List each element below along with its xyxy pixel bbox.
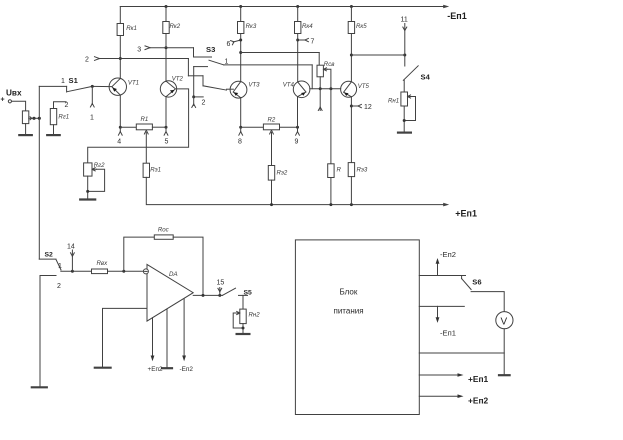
svg-text:S2: S2 [45, 252, 54, 259]
svg-text:6: 6 [227, 41, 231, 48]
inverting input circle [143, 269, 148, 274]
svg-text:15: 15 [217, 280, 225, 287]
transistor VT2 [160, 81, 176, 97]
svg-text:Rсв: Rсв [324, 61, 335, 68]
svg-text:1: 1 [58, 263, 62, 270]
wire Rk4 top [297, 7, 299, 22]
wire input pot bottom [25, 124, 27, 135]
wire top supply rail [120, 6, 444, 8]
wire input bus vertical [38, 86, 40, 259]
node S3 lower contact [192, 95, 195, 98]
resistor Rk5 [348, 22, 354, 34]
svg-text:1: 1 [61, 78, 65, 85]
wire to VT3 base [227, 88, 234, 90]
resistor Re2 [268, 166, 274, 181]
op-amp power pin -Ep2 [183, 299, 185, 357]
wire Rk5 node to S4 [351, 54, 404, 56]
svg-text:+Eп1: +Eп1 [468, 374, 489, 384]
wire R top [330, 89, 332, 164]
wire Rk1 bottom to VT1 collector [119, 36, 121, 79]
node 9 junction [296, 126, 299, 129]
resistor Rk1 [117, 24, 123, 36]
ground Rg2 [80, 198, 95, 200]
node 5 junction [165, 126, 168, 129]
wire box pin1 [419, 275, 465, 277]
svg-text:питания: питания [334, 307, 364, 316]
ground non-inverting [95, 367, 111, 369]
svg-text:14: 14 [67, 244, 75, 251]
node 6 junction [239, 39, 242, 42]
svg-text:1: 1 [225, 59, 229, 66]
resistor Re3 [348, 163, 354, 177]
svg-text:2: 2 [57, 283, 61, 290]
svg-text:Rк2: Rк2 [170, 23, 181, 30]
op-amp power pin middle ground [166, 309, 168, 368]
node 2 junction [119, 57, 122, 60]
switch S1 blade [67, 86, 92, 91]
svg-text:3: 3 [137, 47, 141, 54]
svg-text:Блок: Блок [340, 287, 358, 296]
transistor VT4 [293, 81, 310, 98]
svg-text:7: 7 [311, 39, 315, 46]
switch S4 blade [403, 66, 418, 81]
wire S3 pole2 feed [187, 59, 189, 76]
svg-text:Rк5: Rк5 [356, 23, 367, 30]
wire non-inverting input [103, 308, 148, 366]
Rg2 wiper loop [88, 169, 105, 191]
node 15 junction [218, 294, 221, 297]
potentiometer R2 [263, 124, 279, 130]
wire VT3 emitter down [240, 98, 242, 128]
wire VT1 base [92, 85, 112, 87]
node junction Rk4 top [296, 5, 299, 8]
node 7 junction [296, 39, 299, 42]
wire S4 upper [404, 55, 406, 66]
S1 contact tick [66, 86, 68, 92]
node 12 junction [350, 105, 353, 108]
svg-text:+: + [1, 97, 5, 104]
svg-text:V: V [501, 316, 508, 327]
potentiometer R1 [136, 124, 152, 130]
svg-text:Rос: Rос [158, 227, 169, 234]
svg-text:S5: S5 [244, 290, 253, 297]
wire Rk5 bottom to VT5 collector [350, 34, 352, 82]
switch S5 blade [222, 288, 235, 295]
wire Rn1 bottom [403, 106, 405, 132]
wire -Ep1 arrow [437, 306, 439, 319]
wire R1 to node5 [152, 126, 166, 128]
arrow test point 3 [145, 46, 150, 50]
wire S3 throw1 to VT4 base [224, 64, 312, 66]
wire Rg1 bottom [53, 125, 55, 135]
test point 7 tick [298, 39, 306, 41]
node 14 junction [71, 270, 74, 273]
node junction Rk5 top [350, 5, 353, 8]
wire Rk3 node to Rsv top [241, 52, 320, 54]
svg-text:VT4: VT4 [283, 82, 295, 89]
Rn1 wiper loop [404, 97, 415, 121]
resistor Rsv [317, 65, 323, 77]
wire R2 to node9 [280, 126, 298, 128]
svg-text:-Eп2: -Eп2 [180, 366, 194, 373]
Rsv wiper arrow [323, 68, 327, 71]
node output Roc junction [202, 294, 205, 297]
R2 wiper [271, 133, 273, 166]
switch S3 blade 2 [203, 86, 227, 90]
wire Rk1 top [119, 7, 121, 24]
Rn1 wiper arrow [408, 95, 412, 98]
svg-text:-Eп1: -Eп1 [447, 11, 466, 21]
svg-text:+Eп2: +Eп2 [468, 396, 489, 406]
svg-text:Rн1: Rн1 [388, 98, 399, 105]
S5 contact tick [239, 294, 248, 296]
wire Rk2 top [165, 7, 167, 22]
Rn2 wiper arrow [236, 311, 240, 314]
test point 8 [240, 127, 242, 131]
switch S2 pivot wire [39, 258, 56, 260]
resistor Rk3 [238, 22, 244, 34]
wire box pin +Ep1 [419, 374, 459, 376]
wire Rk3 bottom to VT3 collector [240, 34, 242, 82]
wire R bottom [330, 178, 332, 205]
wire S6 to voltmeter [471, 292, 504, 312]
wire Rn2 bottom [242, 324, 244, 333]
node junction Rk3 top [239, 5, 242, 8]
test point 1 stub [91, 86, 93, 104]
S2 contact 2 stub [40, 276, 56, 387]
node junction Rk2 top [165, 5, 168, 8]
svg-text:Rэ2: Rэ2 [277, 170, 288, 177]
wire node8 to R2 [241, 126, 264, 128]
svg-text:Rк3: Rк3 [246, 23, 257, 30]
svg-text:+Eп2: +Eп2 [148, 366, 163, 373]
resistor Rn2 [240, 309, 246, 324]
svg-text:12: 12 [364, 104, 372, 111]
node 4 junction [119, 126, 122, 129]
Rg2 wiper arrow [92, 168, 97, 171]
transistor VT1 [109, 78, 126, 95]
wire op-amp input line [61, 270, 92, 272]
wire box pin2 [419, 305, 464, 307]
wire Rg1 top contact2 [54, 102, 67, 109]
svg-text:Rвх: Rвх [97, 260, 109, 267]
S3 throw2 contact [194, 66, 208, 68]
svg-text:Uвх: Uвх [6, 89, 22, 98]
node Rn2 bottom junction [242, 327, 245, 330]
resistor Roc [154, 235, 173, 239]
svg-text:-Eп2: -Eп2 [440, 250, 456, 259]
node Rk5-S4 junction [350, 54, 353, 57]
wire Rg2 bottom [87, 176, 89, 199]
svg-text:Rн2: Rн2 [249, 311, 261, 318]
test point 9 [297, 127, 299, 131]
wire VT2 emitter down [165, 97, 167, 128]
node S1 junction [91, 85, 94, 88]
node Roc junction [122, 270, 125, 273]
power supply box [295, 240, 419, 415]
wire Rk3 top [240, 7, 242, 22]
wire node2 horizontal [99, 58, 188, 60]
wire node4 to R1 [120, 126, 136, 128]
wire op-amp output [193, 294, 222, 296]
svg-text:Rг1: Rг1 [58, 114, 69, 121]
node Re3 rail junction [350, 203, 353, 206]
wire Rk4 bottom to VT4 collector [297, 34, 299, 83]
potentiometer input [22, 111, 28, 124]
R1 wiper [145, 133, 147, 164]
svg-text:R: R [337, 167, 342, 174]
node Rsv bottom junction [319, 87, 322, 90]
ground Rg1 [47, 134, 60, 136]
resistor Rk4 [295, 22, 301, 34]
wire input to pot [12, 101, 26, 111]
Rn2 wiper loop [233, 313, 243, 328]
wire Re3 bottom [350, 177, 352, 205]
test point 15 stub [219, 288, 221, 296]
wire Rk2 bottom to VT2 collector [165, 34, 167, 82]
wire Rvx to op-amp [108, 270, 144, 272]
svg-text:VT5: VT5 [358, 83, 370, 90]
wire S1 feed [39, 85, 66, 87]
svg-text:VT1: VT1 [128, 80, 139, 87]
transistor VT5 [341, 81, 357, 97]
wire Roc loop left [124, 237, 155, 271]
voltmeter V [496, 312, 513, 329]
wire Roc loop right [173, 237, 203, 295]
resistor Rk2 [163, 22, 169, 34]
input pot wiper [29, 117, 34, 120]
test point 4 [119, 127, 121, 131]
ground voltmeter bar [499, 374, 510, 376]
svg-text:2: 2 [202, 100, 206, 107]
node Rk3-Rsv junction [239, 51, 242, 54]
node R rail junction [329, 203, 332, 206]
resistor Re1 [143, 163, 149, 177]
wire Re1 bottom to rail [146, 177, 444, 204]
op-amp DA triangle [147, 264, 193, 321]
test point 12 tick [351, 105, 358, 107]
node wiper junction [32, 117, 35, 120]
node R top junction [329, 87, 332, 90]
wire Rsv bottom [319, 77, 321, 89]
wire VT4-VT5 base bus [310, 88, 341, 90]
switch S3 blade 1 [209, 60, 224, 65]
wire S5 to Rn2 [242, 295, 244, 309]
wire S4 to Rn1 [403, 80, 405, 92]
resistor Rg2 [84, 163, 92, 176]
wire node3 horizontal [150, 47, 194, 49]
svg-text:R1: R1 [141, 116, 149, 123]
wire -Ep2 arrow [437, 262, 439, 276]
resistor Rg1 [50, 109, 56, 125]
arrow test point 2 left [95, 57, 100, 61]
wire Re2 bottom [271, 180, 273, 205]
test point 11 stub [404, 24, 406, 56]
svg-text:5: 5 [165, 139, 169, 146]
resistor Rvx [92, 269, 108, 274]
node S4 top junction [403, 54, 406, 57]
transistor VT3 [230, 81, 247, 98]
wire VT1 emitter down [119, 95, 121, 127]
resistor R [328, 164, 334, 178]
svg-text:9: 9 [295, 139, 299, 146]
switch S6 blade [461, 276, 463, 279]
wire VT4 emitter down [297, 97, 299, 128]
arrowhead top rail [443, 5, 449, 9]
node 3 junction [165, 46, 168, 49]
input terminal Uvx [8, 100, 11, 103]
svg-text:-Eп1: -Eп1 [440, 329, 456, 338]
svg-text:R2: R2 [268, 117, 276, 124]
resistor Rn1 [401, 92, 408, 106]
svg-text:Rэ3: Rэ3 [357, 167, 368, 174]
svg-text:4: 4 [117, 139, 121, 146]
svg-text:S6: S6 [472, 278, 481, 287]
ground Rn2 [237, 333, 250, 335]
svg-text:1: 1 [90, 115, 94, 122]
svg-text:Rэ1: Rэ1 [150, 166, 161, 173]
svg-text:DA: DA [169, 271, 178, 278]
node Rg2 bottom junction [86, 190, 89, 193]
svg-text:+Eп1: +Eп1 [455, 209, 477, 219]
svg-text:2: 2 [85, 57, 89, 64]
ground input pot [19, 134, 32, 136]
wire voltmeter bottom [503, 329, 505, 375]
arrowhead +Ep1 rail [443, 203, 449, 207]
svg-text:S4: S4 [421, 73, 431, 82]
svg-text:11: 11 [401, 17, 408, 24]
svg-text:Rк4: Rк4 [302, 23, 313, 30]
test stub below Rsv [319, 89, 321, 111]
op-amp power pin +Ep2 [152, 318, 154, 357]
test point 6 tick [233, 40, 241, 42]
switch S2 blade [56, 260, 61, 270]
node Re2 rail junction [270, 203, 273, 206]
svg-text:S1: S1 [69, 76, 79, 85]
wire jog to S3 pole1 [193, 48, 195, 57]
svg-text:S3: S3 [206, 45, 215, 54]
node input bus junction [38, 117, 41, 120]
wire box pin +Ep2 [419, 395, 459, 397]
svg-text:8: 8 [238, 139, 242, 146]
svg-text:Rг2: Rг2 [94, 162, 105, 169]
svg-text:VT2: VT2 [172, 76, 184, 83]
node 8 junction [239, 126, 242, 129]
ground S2 [32, 386, 47, 388]
Rsv wiper wire [327, 69, 331, 88]
test point 5 [165, 127, 167, 131]
svg-text:Rк1: Rк1 [126, 25, 137, 32]
test point 14 stub [71, 250, 73, 271]
wire VT2 emitter right [88, 89, 189, 164]
node Rn1 bottom junction [403, 119, 406, 122]
test point 2 stub under S3 [193, 97, 195, 106]
wire Rk5 top [350, 7, 352, 22]
wire box to voltmeter [419, 352, 504, 354]
ground Rn1 [398, 132, 411, 134]
svg-text:2: 2 [65, 102, 69, 109]
wire wiper to bus [34, 117, 39, 119]
wire VT5 emitter down [350, 97, 352, 163]
svg-text:VT3: VT3 [248, 82, 260, 89]
